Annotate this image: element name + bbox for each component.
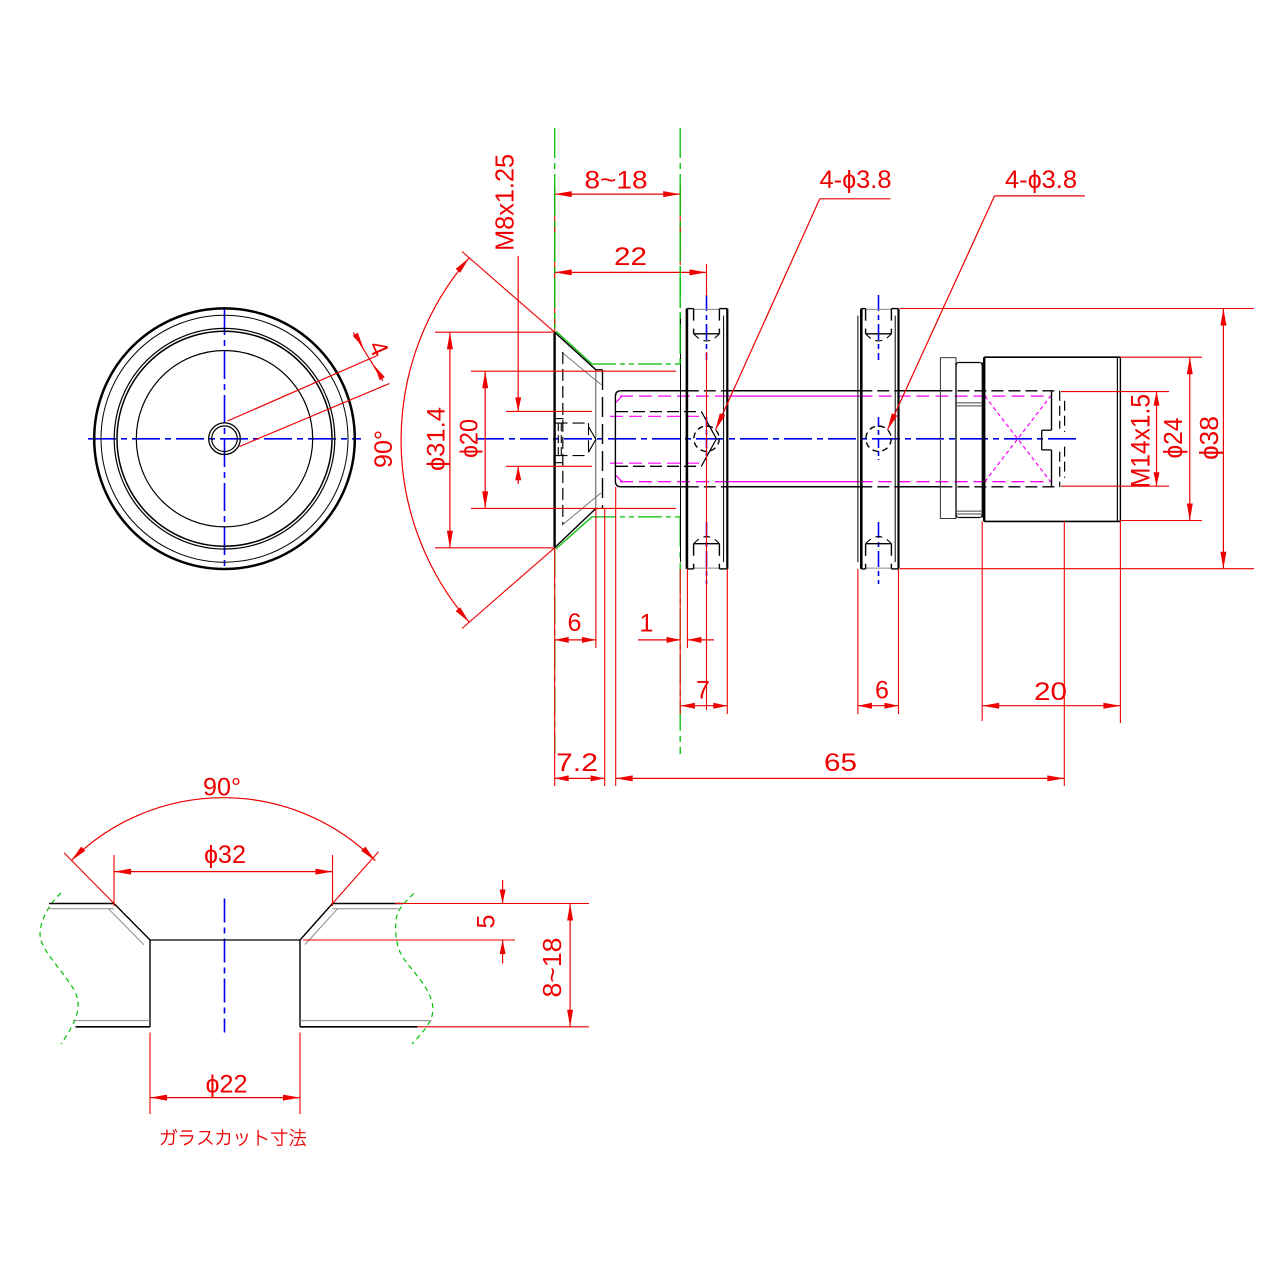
svg-text:6: 6 xyxy=(568,609,582,637)
svg-text:4-ɸ3.8: 4-ɸ3.8 xyxy=(820,166,892,194)
svg-text:90°: 90° xyxy=(370,430,398,468)
svg-text:ɸ32: ɸ32 xyxy=(204,841,246,869)
svg-text:M8x1.25: M8x1.25 xyxy=(489,154,519,251)
svg-text:4-ɸ3.8: 4-ɸ3.8 xyxy=(1005,166,1077,194)
svg-text:ɸ31.4: ɸ31.4 xyxy=(423,407,451,471)
svg-text:1: 1 xyxy=(640,610,654,638)
svg-text:6: 6 xyxy=(875,677,889,705)
svg-text:ɸ24: ɸ24 xyxy=(1158,418,1188,459)
svg-text:7: 7 xyxy=(696,677,710,705)
svg-text:20: 20 xyxy=(1034,678,1067,706)
svg-text:7.2: 7.2 xyxy=(556,749,598,777)
svg-text:ɸ38: ɸ38 xyxy=(1194,416,1224,460)
svg-text:8~18: 8~18 xyxy=(585,167,648,195)
svg-text:8~18: 8~18 xyxy=(537,938,567,998)
svg-text:ɸ22: ɸ22 xyxy=(206,1071,248,1099)
svg-text:90°: 90° xyxy=(203,774,241,802)
svg-text:ɸ20: ɸ20 xyxy=(456,419,484,458)
svg-text:65: 65 xyxy=(824,749,857,777)
svg-text:5: 5 xyxy=(473,915,501,929)
svg-text:22: 22 xyxy=(614,243,647,271)
svg-text:M14x1.5: M14x1.5 xyxy=(1126,394,1156,488)
